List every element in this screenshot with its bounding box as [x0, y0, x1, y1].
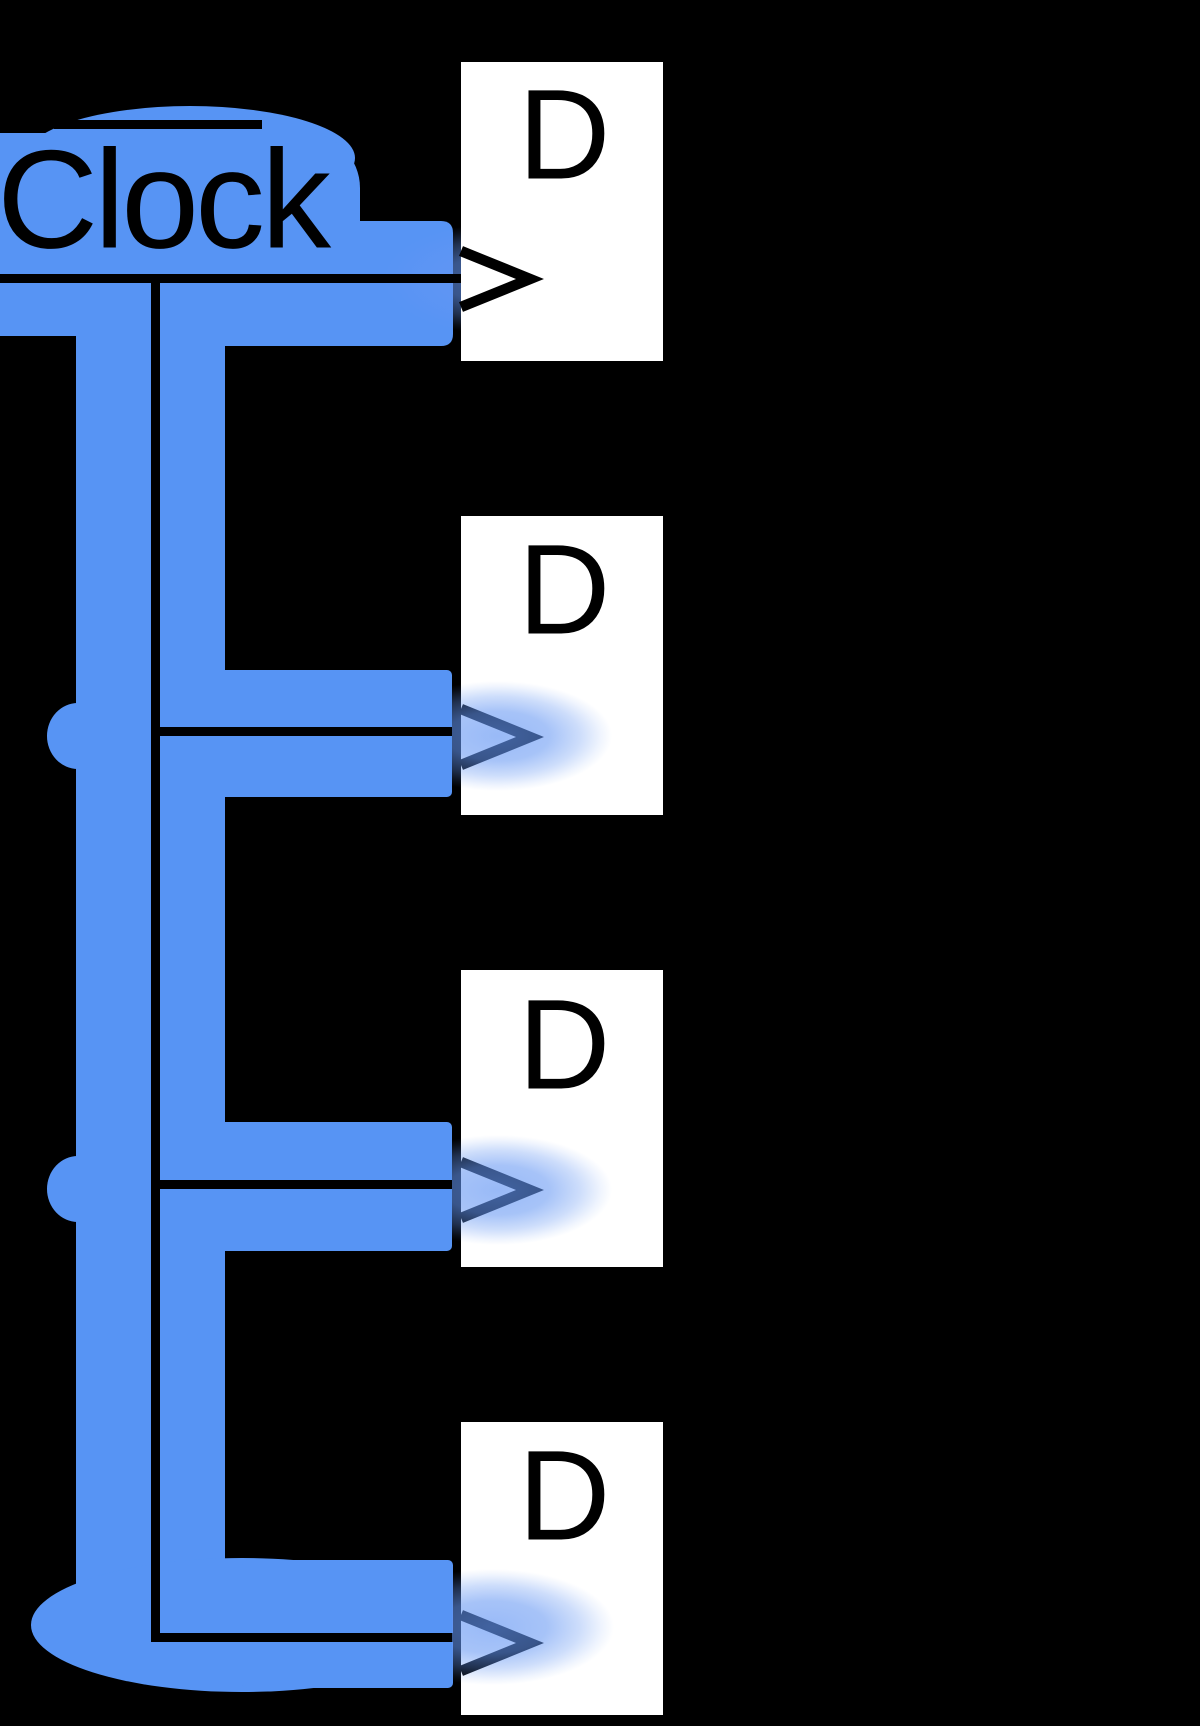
highlight: branch 2 stroke: [76, 670, 452, 797]
highlight: clock trunk stroke: [76, 240, 225, 1635]
clock input triangle U4: [461, 1615, 530, 1671]
highlight: branch 4 stroke cap: [31, 1558, 453, 1692]
highlight: branch 3 stroke cap: [47, 1156, 109, 1222]
highlight: branch 3 stroke: [76, 1122, 452, 1251]
flip-flop U4 box: [461, 1422, 663, 1715]
wire: branch to U2: [151, 727, 461, 736]
svg-text:D: D: [518, 1425, 610, 1568]
svg-text:Clock: Clock: [0, 121, 332, 278]
svg-text:D: D: [518, 519, 610, 662]
highlight glow at U1 clock pin (hidden behind box): [382, 224, 610, 334]
svg-text:D: D: [518, 974, 610, 1117]
flip-flop U2 box: [461, 516, 663, 815]
clock input triangle U1: [461, 251, 530, 307]
flip-flop U1 box: [461, 62, 663, 361]
highlight: branch 2 stroke cap: [47, 703, 109, 769]
highlight glow at U4 clock pin: [370, 1569, 614, 1685]
highlight glow at U2 clock pin: [384, 681, 612, 791]
flip-flop U3 box: [461, 970, 663, 1267]
clock input triangle U2: [461, 709, 530, 765]
highlight: clock label blob: [0, 106, 453, 346]
svg-text:D: D: [518, 64, 610, 207]
highlight glow at U3 clock pin: [384, 1135, 612, 1245]
clock input triangle U3: [461, 1162, 530, 1218]
wire: stub above Clock label: [54, 120, 262, 129]
highlight: branch 4 stroke: [242, 1560, 453, 1688]
wire: clock trunk vertical: [151, 274, 160, 1642]
wire: branch to U4: [151, 1633, 461, 1642]
wire: branch to U3: [151, 1180, 461, 1189]
wire: clock net to U1: [0, 274, 461, 283]
